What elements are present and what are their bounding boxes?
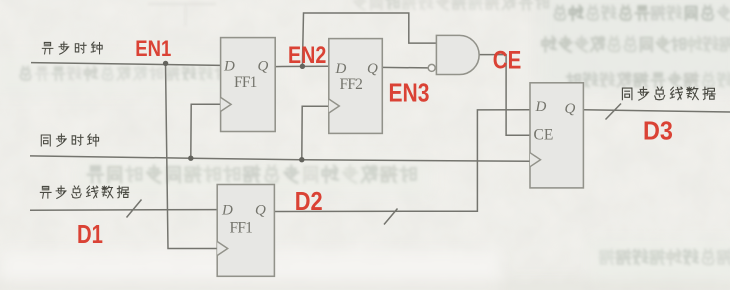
- wire: async clock input: [31, 63, 221, 66]
- svg-text:D3: D3: [643, 117, 673, 145]
- junction node EN2: [300, 64, 305, 69]
- wire: sync bus data output: [583, 110, 730, 112]
- bleed text row mid-left: [20, 66, 260, 80]
- wire: sync clock line: [30, 156, 530, 161]
- junction node EN1: [163, 61, 168, 66]
- signal label: async bus data (异步总线数据): [40, 186, 128, 198]
- svg-text:CE: CE: [493, 46, 521, 74]
- bus slash on async data D1: [127, 200, 142, 218]
- wire: FF1 Q to FF2 D: [275, 65, 329, 67]
- bleed text row top (right darker part): [554, 5, 730, 20]
- svg-text:D: D: [335, 61, 347, 77]
- svg-text:FF2: FF2: [340, 76, 363, 93]
- svg-text:Q: Q: [565, 101, 576, 117]
- svg-text:D1: D1: [77, 219, 103, 248]
- svg-text:Q: Q: [258, 59, 269, 75]
- svg-text:CE: CE: [534, 127, 554, 144]
- svg-text:D: D: [221, 203, 233, 219]
- svg-text:EN1: EN1: [135, 38, 171, 62]
- svg-text:D: D: [223, 59, 235, 75]
- wire: async bus data input: [30, 209, 217, 212]
- bleed text row mid-right: [567, 72, 730, 87]
- svg-text:Q: Q: [255, 203, 266, 219]
- inversion bubble on NAND lower input: [428, 64, 435, 71]
- svg-text:D2: D2: [295, 187, 323, 216]
- faint bleed mark: table line: [148, 4, 216, 26]
- wire: EN2 feedback to NAND top input: [302, 13, 436, 66]
- wire: D2 bus from bottom FF1 Q up to right FF D: [274, 110, 530, 212]
- svg-text:FF1: FF1: [230, 220, 253, 237]
- wire: FF2 clock to sync line: [302, 106, 329, 159]
- bus slash on D2 wire: [384, 209, 398, 225]
- bleed text row bottom-right: [600, 250, 730, 265]
- bleed text row top2: [542, 36, 730, 51]
- wire: EN1 vertical drop to bottom FF1 clock: [166, 64, 218, 249]
- flip-flop with CE (right): [530, 83, 583, 188]
- bleed text row top (left faint part, clipped at top edge): [354, 0, 548, 10]
- signal label: sync clock (同步时钟): [41, 134, 98, 146]
- bleed heading row: [88, 166, 416, 183]
- svg-text:EN2: EN2: [288, 41, 326, 68]
- flip-flop FF1 (top): [221, 38, 276, 132]
- signal label: sync bus data (同步总线数据): [622, 87, 715, 100]
- signal label: async clock (异步时钟): [42, 42, 102, 54]
- svg-text:EN3: EN3: [389, 80, 430, 109]
- svg-text:FF1: FF1: [234, 74, 257, 91]
- wire: NAND output CE to right FF CE pin: [479, 55, 530, 136]
- junction: FF2 clock on sync line: [299, 157, 304, 162]
- bus slash on D3 output: [606, 104, 622, 120]
- svg-text:D: D: [535, 99, 547, 115]
- wire: FF2 Q to NAND bubble: [382, 66, 428, 69]
- NAND gate (AND shape, bubble on lower input): [436, 35, 479, 74]
- flip-flop FF1 (bottom): [217, 185, 274, 277]
- junction: FF1 clock on sync line: [188, 156, 193, 161]
- flip-flop FF2: [329, 39, 383, 134]
- svg-text:Q: Q: [367, 61, 378, 77]
- wire: FF1 clock to sync line: [191, 104, 221, 158]
